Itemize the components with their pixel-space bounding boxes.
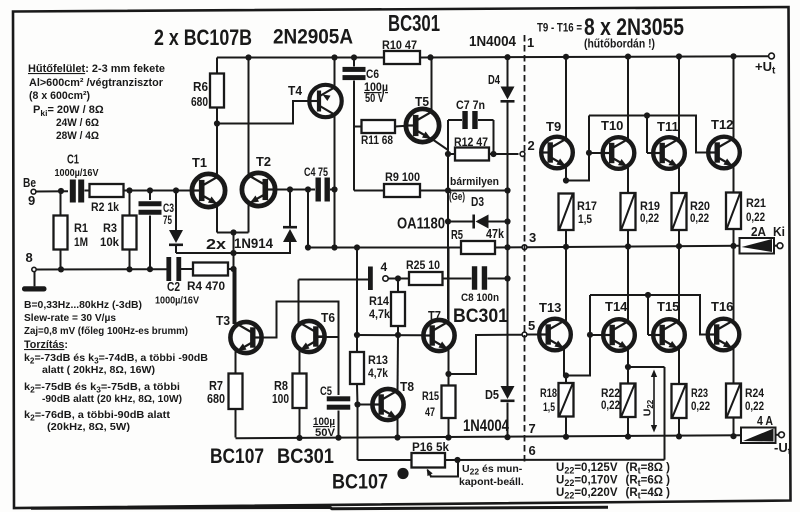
resistor R3 10k: [129, 191, 131, 216]
wire T8 base: [358, 404, 373, 406]
transistor T4 2N2905A: [309, 85, 341, 117]
diode 1N914 b: [289, 190, 291, 227]
resistor R22 0,22: [627, 367, 629, 384]
wire T6 collector to node4: [299, 279, 369, 281]
svg-text:2: 2: [528, 138, 535, 153]
svg-text:1,5: 1,5: [578, 212, 592, 226]
resistor R8 100: [293, 374, 307, 409]
svg-text:2 x BC107B: 2 x BC107B: [154, 25, 252, 50]
wire T9 collector: [565, 57, 567, 140]
svg-text:0,22: 0,22: [746, 210, 765, 224]
wire T4 base: [217, 101, 310, 124]
svg-text:R2 1k: R2 1k: [91, 200, 119, 214]
resistor R10 47: [384, 51, 420, 64]
wire U22 sense: [628, 366, 665, 368]
svg-text:T1: T1: [192, 155, 207, 170]
svg-text:T10: T10: [601, 118, 623, 133]
svg-text:28W / 4Ω: 28W / 4Ω: [56, 130, 99, 142]
wire bus to R13 branch: [356, 248, 358, 336]
transistor T1: [192, 174, 225, 207]
transistor T13: [539, 319, 571, 351]
wire R11-T5 base: [395, 125, 407, 128]
svg-text:3: 3: [529, 230, 536, 245]
resistor R5 47k: [461, 241, 495, 254]
resistor R2 1k: [90, 184, 124, 197]
svg-text:1: 1: [527, 35, 534, 50]
svg-text:Slew-rate = 30 V/µs: Slew-rate = 30 V/µs: [24, 312, 116, 324]
scan edge artifact: [31, 507, 608, 509]
svg-text:R1: R1: [74, 221, 88, 235]
wire R25-C8: [443, 278, 472, 280]
svg-text:Al>600cm² /végtranzisztor: Al>600cm² /végtranzisztor: [29, 77, 164, 89]
svg-text:T7: T7: [428, 308, 441, 323]
diode D4 1N4004: [507, 58, 509, 88]
svg-text:D3: D3: [471, 195, 484, 209]
svg-text:Zaj=0,8 mV (főleg 100Hz-es bru: Zaj=0,8 mV (főleg 100Hz-es brumm): [24, 325, 188, 337]
wire T10 collector: [627, 57, 629, 140]
wire base chain to P16: [357, 405, 359, 461]
terminal Be 9: [31, 189, 36, 194]
svg-text:BC301: BC301: [277, 445, 334, 468]
svg-text:R13: R13: [368, 353, 388, 367]
svg-text:R15: R15: [422, 389, 439, 403]
svg-text:T9 - T16 =: T9 - T16 =: [537, 21, 582, 35]
svg-text:T11: T11: [657, 119, 679, 134]
capacitor C3 75: [149, 191, 151, 201]
capacitor C4 75: [316, 178, 321, 202]
svg-text:B=0,33Hz...80kHz (-3dB): B=0,33Hz...80kHz (-3dB): [24, 299, 142, 311]
node 3: [522, 245, 527, 250]
wire ground rail: [36, 268, 167, 270]
wire T7 emitter: [448, 350, 450, 375]
svg-text:BC107: BC107: [332, 471, 388, 494]
resistor R25 10: [409, 272, 443, 285]
wire T14 collector: [627, 247, 629, 322]
resistor R21 0,22: [726, 193, 741, 230]
svg-text:R8: R8: [274, 379, 288, 393]
svg-text:9: 9: [28, 193, 35, 208]
resistor R17 1,5: [559, 194, 574, 231]
svg-text:C5: C5: [320, 384, 332, 398]
svg-text:4: 4: [381, 260, 388, 274]
wire R4-node: [228, 268, 234, 270]
svg-text:Be: Be: [23, 176, 36, 190]
svg-text:Ki: Ki: [773, 224, 785, 239]
resistor R4 470: [193, 263, 228, 276]
svg-text:50 V: 50 V: [365, 91, 384, 105]
transistor T12: [708, 137, 740, 169]
wire T7 collector: [448, 248, 450, 323]
svg-text:R24: R24: [745, 386, 764, 400]
svg-text:R10 47: R10 47: [382, 38, 417, 52]
transistor T8: [372, 389, 403, 420]
resistor R9 100: [354, 190, 384, 192]
wire T11 collector: [678, 57, 680, 141]
svg-text:C7 7n: C7 7n: [456, 98, 485, 112]
svg-text:R25 10: R25 10: [406, 258, 440, 272]
svg-text:R9 100: R9 100: [385, 170, 420, 184]
svg-text:T9: T9: [546, 119, 561, 134]
wire emitter to node5: [449, 335, 522, 374]
transistor T6: [293, 321, 324, 352]
svg-text:75: 75: [163, 213, 172, 227]
capacitor C1: [70, 180, 76, 203]
svg-text:1,5: 1,5: [543, 400, 555, 414]
wire T1 collector: [216, 124, 218, 178]
ground: [34, 272, 36, 287]
svg-text:4 A: 4 A: [757, 413, 773, 428]
svg-text:kapont-beáll.: kapont-beáll.: [459, 476, 524, 488]
node 5: [522, 332, 527, 337]
dashed board separator: [524, 35, 526, 463]
svg-text:R7: R7: [209, 379, 223, 393]
wire C2-R4: [181, 268, 193, 270]
svg-text:C2: C2: [167, 280, 180, 294]
svg-text:BC301: BC301: [388, 10, 440, 36]
wire T6 collector: [298, 280, 300, 324]
wire T4 collector: [334, 115, 336, 190]
wire C1-R2: [85, 190, 91, 192]
wire T1 T2 emitters: [216, 204, 218, 233]
svg-text:7: 7: [529, 421, 536, 436]
svg-text:T2: T2: [256, 154, 271, 169]
wire T2 collector: [248, 58, 250, 177]
resistor R24 0,22: [726, 384, 741, 418]
fuse 2A Ki: [740, 238, 775, 254]
svg-text:R23: R23: [691, 386, 708, 400]
resistor R13 4,7k: [356, 335, 358, 352]
resistor R12 47: [448, 153, 455, 155]
svg-text:R6: R6: [193, 80, 208, 94]
svg-text:1N914: 1N914: [234, 236, 273, 251]
wire R9 right: [420, 190, 508, 192]
svg-text:8 x 2N3055: 8 x 2N3055: [584, 14, 684, 41]
transistor T5: [406, 109, 439, 142]
svg-text:R11 68: R11 68: [361, 133, 393, 147]
wire T6 emitter: [299, 350, 301, 374]
svg-text:R21: R21: [746, 196, 766, 210]
svg-text:(Ge): (Ge): [449, 191, 465, 203]
resistor R19 0,22: [621, 193, 636, 230]
wire to node 2: [494, 153, 519, 155]
svg-text:R4 470: R4 470: [187, 279, 225, 293]
transistor T2: [242, 173, 275, 206]
svg-text:680: 680: [191, 95, 208, 109]
svg-text:100: 100: [272, 392, 289, 406]
svg-text:1000µ/16V: 1000µ/16V: [55, 167, 99, 179]
transistor T11: [653, 137, 685, 169]
wire C8 right: [488, 278, 508, 280]
wire T3 base loop: [256, 302, 339, 338]
wire T8 emitter: [397, 418, 399, 438]
wire T5 emitter: [432, 139, 448, 154]
terminal 8: [32, 267, 36, 271]
capacitor C8 100n: [472, 266, 477, 290]
note specs block: [24, 299, 208, 433]
svg-text:(20kHz, 8Ω, 5W): (20kHz, 8Ω, 5W): [47, 421, 130, 433]
terminal 4: [383, 276, 388, 281]
svg-text:1N4004: 1N4004: [469, 34, 516, 50]
svg-text:R17: R17: [577, 199, 597, 213]
wire diode join: [176, 252, 291, 254]
svg-text:R18: R18: [540, 386, 557, 400]
fuse 4A: [741, 428, 776, 444]
transistor T7: [423, 320, 454, 351]
pot wiper: [430, 460, 458, 477]
resistor R23 0,22: [672, 384, 687, 418]
svg-text:10k: 10k: [100, 235, 119, 249]
wire emitter tail: [233, 233, 235, 325]
wire T13 emitter: [563, 348, 565, 376]
svg-text:4,7k: 4,7k: [368, 366, 388, 380]
node 2: [520, 152, 525, 157]
svg-text:-90dB alatt (20 kHz, 8Ω, 10W): -90dB alatt (20 kHz, 8Ω, 10W): [42, 393, 182, 405]
wire T3 emitter: [235, 351, 237, 374]
wire T13 collector: [565, 247, 567, 321]
wire input: [36, 190, 68, 192]
resistor R18 1,5: [565, 376, 567, 384]
wire rail R10-right: [420, 56, 769, 57]
svg-text:C6: C6: [366, 67, 379, 81]
resistor R6 680: [216, 58, 218, 74]
svg-text:47: 47: [425, 405, 435, 419]
svg-text:R12 47: R12 47: [454, 135, 488, 149]
wire T5 collector: [431, 58, 433, 113]
svg-text:alatt ( 20kHz, 8Ω, 16W): alatt ( 20kHz, 8Ω, 16W): [42, 364, 155, 376]
svg-text:T16: T16: [711, 299, 733, 314]
wire T3 collector: [235, 269, 237, 325]
wire T9 emitter: [565, 166, 567, 181]
svg-text:C8 100n: C8 100n: [461, 292, 499, 304]
resistor R15 47: [448, 374, 450, 386]
resistor R7 680: [229, 374, 243, 410]
wire T4 emitter: [334, 58, 336, 89]
wire T10 emitter: [627, 167, 629, 194]
diode 1N914 a: [175, 191, 177, 231]
transistor T16: [708, 319, 740, 351]
capacitor C5 100u: [338, 337, 340, 395]
svg-text:8: 8: [26, 250, 33, 265]
svg-text:T3: T3: [216, 313, 230, 328]
resistor R1 1M: [60, 191, 62, 216]
wire P16 right / node6 line: [445, 459, 665, 461]
wire D4-D5 chain: [507, 191, 509, 222]
svg-text:2N2905A: 2N2905A: [273, 25, 353, 49]
wire T15 collector: [678, 246, 680, 321]
capacitor C2: [166, 257, 171, 281]
terminal +Ut: [769, 53, 775, 59]
svg-text:1000µ/16V: 1000µ/16V: [155, 295, 199, 307]
wire T12 emitter: [733, 166, 735, 193]
svg-text:6: 6: [529, 443, 536, 458]
wire T8 collector: [397, 335, 400, 392]
svg-text:(hűtőbordán !): (hűtőbordán !): [584, 39, 655, 51]
svg-text:T8: T8: [400, 379, 414, 394]
wire top rail left: [217, 57, 384, 59]
marker dot BC107: [397, 468, 408, 479]
arrow U22 measure: [653, 372, 655, 430]
wire feedback down: [307, 190, 309, 248]
wire C4-T4 collector line: [330, 189, 335, 191]
wire T5e-T7c vertical: [447, 154, 449, 222]
wire C6-R9: [353, 127, 355, 191]
resistor R14 4,7k: [397, 279, 399, 293]
svg-text:0,22: 0,22: [690, 211, 709, 225]
potentiometer P16 5k: [412, 453, 446, 468]
wire T9 base drive bus: [566, 116, 589, 181]
wire T14 emitter: [627, 349, 629, 368]
svg-text:D4: D4: [488, 73, 500, 87]
svg-text:C4 75: C4 75: [304, 165, 328, 179]
wire T16 collector: [733, 246, 735, 321]
transistor T15: [653, 319, 685, 351]
svg-text:T5: T5: [415, 94, 429, 109]
wire T7 base: [357, 334, 423, 336]
svg-text:T4: T4: [288, 83, 303, 98]
wire node5-T13 base: [528, 334, 540, 336]
diode D5 1N4004: [507, 279, 509, 387]
svg-text:Hűtőfelület: 2-3 mm fekete: Hűtőfelület: 2-3 mm fekete: [28, 63, 165, 75]
svg-text:(8 x 600cm²): (8 x 600cm²): [29, 90, 90, 102]
svg-text:BC107: BC107: [210, 445, 264, 468]
wire T13-T16 base drive bus: [566, 295, 590, 376]
wire 4-R25: [388, 278, 409, 280]
svg-text:0,22: 0,22: [691, 399, 710, 413]
terminal bar 4: [368, 267, 373, 291]
svg-text:T6: T6: [321, 310, 335, 325]
resistor R11 68: [354, 126, 362, 128]
svg-text:47k: 47k: [486, 227, 504, 241]
svg-text:24W / 6Ω: 24W / 6Ω: [56, 117, 99, 129]
capacitor C6 100u: [353, 58, 355, 67]
svg-text:2A: 2A: [751, 224, 767, 239]
svg-text:0,22: 0,22: [745, 399, 764, 413]
wire T12 collector: [733, 56, 735, 139]
wire T11 emitter: [678, 167, 680, 194]
main mid bus: [308, 247, 461, 249]
svg-text:bármilyen: bármilyen: [450, 176, 499, 188]
wire node6 right riser: [664, 367, 666, 460]
svg-text:OA1180: OA1180: [397, 216, 445, 233]
wire T13 base: [528, 334, 540, 336]
wire T2 base to C4: [275, 189, 315, 191]
wire bottom rail: [236, 435, 742, 438]
svg-text:R3: R3: [103, 221, 117, 235]
svg-text:P16 5k: P16 5k: [412, 440, 449, 454]
diode D3: [448, 221, 474, 223]
svg-text:T15: T15: [657, 299, 679, 314]
svg-text:2x: 2x: [206, 237, 226, 253]
svg-text:T13: T13: [539, 300, 561, 315]
transistor T3: [230, 322, 261, 353]
svg-text:5: 5: [528, 318, 535, 333]
wire T16 emitter: [733, 348, 735, 384]
svg-text:D5: D5: [485, 388, 499, 402]
transistor T10: [603, 137, 635, 169]
svg-text:0,22: 0,22: [601, 398, 620, 412]
svg-text:4,7k: 4,7k: [369, 307, 390, 321]
note U22 values: [556, 462, 670, 501]
svg-text:T14: T14: [605, 299, 628, 314]
svg-text:1N4004: 1N4004: [463, 417, 510, 435]
wire R2-T1 base: [124, 190, 193, 192]
svg-text:R5: R5: [451, 228, 463, 242]
svg-text:R14: R14: [369, 294, 389, 308]
svg-text:Torzítás:: Torzítás:: [24, 339, 68, 351]
svg-text:680: 680: [207, 392, 225, 406]
svg-text:T12: T12: [711, 117, 733, 132]
svg-text:BC301: BC301: [453, 306, 508, 327]
svg-text:0,22: 0,22: [640, 211, 659, 225]
transistor T14: [603, 319, 635, 351]
wire T15 emitter: [678, 349, 680, 385]
note heatsink block: [28, 63, 165, 142]
svg-text:C1: C1: [67, 153, 79, 167]
svg-text:1M: 1M: [74, 235, 88, 249]
capacitor C7 7n: [447, 120, 449, 154]
resistor R20 0,22: [672, 193, 687, 230]
transistor T9: [541, 137, 573, 169]
